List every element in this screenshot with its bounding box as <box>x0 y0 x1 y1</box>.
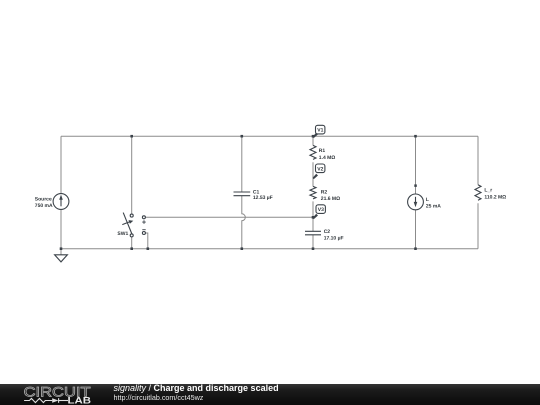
svg-text:R1: R1 <box>319 148 326 154</box>
svg-text:110.2 MΩ: 110.2 MΩ <box>484 194 506 200</box>
svg-text:R2: R2 <box>321 190 328 196</box>
svg-text:25 mA: 25 mA <box>426 204 441 210</box>
svg-text:V1: V1 <box>317 128 323 134</box>
svg-text:12.53 µF: 12.53 µF <box>253 195 273 201</box>
svg-text:21.6 MΩ: 21.6 MΩ <box>321 196 340 202</box>
svg-text:L_r: L_r <box>484 188 492 194</box>
svg-text:Source: Source <box>35 196 52 202</box>
svg-text:750 mA: 750 mA <box>35 203 53 209</box>
svg-text:V3: V3 <box>318 207 324 213</box>
svg-text:LAB: LAB <box>68 395 92 405</box>
svg-text:SW1: SW1 <box>117 231 128 237</box>
svg-text:C2: C2 <box>324 229 331 235</box>
svg-text:1.4 MΩ: 1.4 MΩ <box>319 155 336 161</box>
svg-text:L: L <box>426 197 429 203</box>
svg-text:V2: V2 <box>317 166 323 172</box>
svg-text:17.10 µF: 17.10 µF <box>324 236 344 242</box>
